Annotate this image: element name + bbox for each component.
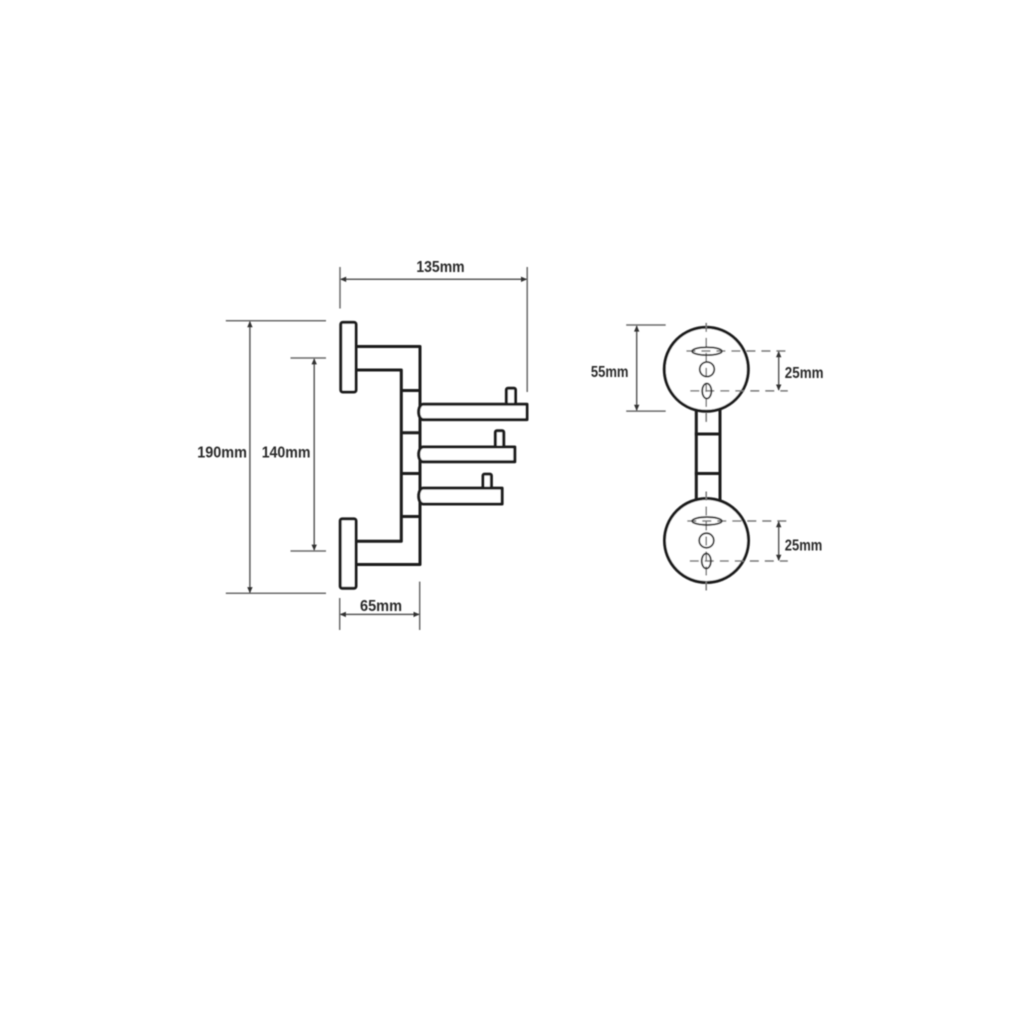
svg-text:25mm: 25mm [785, 365, 824, 382]
tick top of 55mm [626, 324, 666, 326]
arrowhead 25mm bottom upper [776, 521, 781, 527]
bracket outer outline [356, 347, 420, 565]
tick bottom of 55mm [626, 410, 666, 412]
tick top of 190mm [226, 320, 326, 322]
dimension line 190mm [249, 322, 251, 593]
dimension line 65mm [341, 613, 420, 615]
hook knob 2 [495, 431, 503, 449]
column divider 1 [695, 433, 722, 436]
dashed line top circle upper [686, 350, 787, 352]
arrowhead 55mm top [634, 325, 639, 331]
arrowhead 65mm right [414, 612, 420, 617]
dimension line 55mm [636, 326, 638, 410]
dashed line bottom circle lower [690, 560, 788, 562]
dimension line 140mm [313, 359, 315, 550]
arrowhead 135mm left [340, 277, 346, 282]
column joint tick 3 [401, 472, 420, 475]
extension line left of 135mm [339, 267, 341, 309]
arrowhead 190mm top [247, 321, 252, 327]
tick bottom of 190mm [226, 592, 326, 594]
arrowhead 140mm bottom [312, 545, 317, 551]
svg-text:55mm: 55mm [591, 364, 629, 381]
screw hole top circle [700, 362, 715, 377]
bracket inner outline [356, 370, 401, 541]
arrowhead 140mm top [312, 358, 317, 364]
extension line right of 135mm [526, 267, 528, 392]
oval hole bottom circle [702, 554, 711, 569]
slot hole bottom circle [692, 517, 722, 525]
oval hole top circle [702, 384, 711, 399]
tick top of 140mm [291, 357, 327, 359]
dimension line 25mm bottom [778, 522, 780, 560]
dashed line bottom circle upper [687, 520, 788, 522]
column joint tick 2 [401, 431, 420, 434]
svg-text:135mm: 135mm [416, 259, 464, 276]
slot hole top circle [692, 347, 722, 355]
screw hole bottom circle [699, 533, 714, 548]
arrowhead 25mm top upper [776, 351, 781, 357]
wall plate top [341, 322, 356, 392]
arrowhead 65mm left [340, 612, 346, 617]
dimension line 135mm [341, 278, 526, 280]
arrowhead 135mm right [521, 277, 527, 282]
dashed vertical centerline bottom circle [705, 492, 707, 594]
hook knob 1 [506, 388, 515, 406]
extension line right of 65mm [419, 582, 421, 630]
hook arm 3 [419, 488, 502, 504]
column joint tick 1 [401, 389, 420, 392]
hook arm 1 [419, 404, 527, 419]
tick bottom of 140mm [291, 550, 327, 552]
arrowhead 25mm bottom lower [776, 555, 781, 561]
svg-text:190mm: 190mm [197, 445, 247, 462]
svg-text:25mm: 25mm [785, 538, 823, 555]
top mounting circle [664, 327, 748, 411]
dimension line 25mm top [778, 352, 780, 390]
arrowhead 190mm bottom [247, 587, 252, 593]
column joint tick 4 [401, 515, 420, 518]
wall plate bottom [340, 519, 356, 588]
svg-text:140mm: 140mm [262, 445, 311, 462]
column right edge [719, 409, 722, 500]
svg-text:65mm: 65mm [360, 598, 402, 615]
arrowhead 25mm top lower [776, 385, 781, 391]
hook arm 2 [419, 447, 515, 462]
column divider 2 [695, 472, 722, 475]
column left edge [695, 410, 698, 501]
dashed vertical centerline top circle [705, 323, 707, 423]
extension line left of 65mm [339, 598, 341, 630]
hook knob 3 [483, 474, 491, 491]
bottom mounting circle [665, 499, 749, 583]
arrowhead 55mm bottom [634, 405, 639, 411]
dashed line top circle lower [690, 390, 788, 392]
